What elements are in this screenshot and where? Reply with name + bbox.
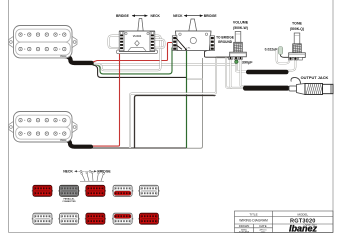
pickup neck poles row1 — [19, 33, 66, 36]
svg-text:(500K-W): (500K-W) — [233, 26, 248, 30]
pickup neck poles row2 — [19, 47, 66, 50]
svg-text:Blaze: Blaze — [60, 139, 67, 142]
cable volume-to-tone — [246, 70, 289, 74]
svg-text:VOLUME: VOLUME — [233, 21, 249, 25]
wire white bridge-to-volume (big loop) — [130, 57, 231, 148]
svg-text:NECK: NECK — [151, 14, 161, 18]
svg-text:FUJIKAWA: FUJIKAWA — [239, 230, 250, 233]
switch1 right lug strip — [150, 32, 155, 51]
legend icon row1 pos1 (red) — [32, 185, 53, 196]
svg-text:CONNECTED: CONNECTED — [62, 201, 76, 203]
wire black neck ground — [93, 65, 187, 77]
legend icon row2 pos1 (white) — [32, 213, 53, 224]
switch1 lever — [138, 19, 143, 32]
wire red switch1-to-bridge — [92, 48, 120, 146]
svg-text:GROUND: GROUND — [218, 40, 233, 44]
wire dark inner of pair — [135, 96, 216, 149]
pickup neck left ear — [9, 36, 15, 48]
legend icon row1 pos5 (white) — [138, 185, 159, 196]
wire white switch2-to-volume — [186, 78, 203, 80]
legend icon row2 pos2 (white) — [58, 213, 79, 224]
volume knurl — [234, 42, 243, 52]
svg-text:MODEL: MODEL — [297, 212, 308, 216]
svg-text:390pF: 390pF — [242, 60, 253, 64]
tone body — [289, 53, 306, 58]
svg-text:NECK: NECK — [63, 170, 73, 174]
wire white jumper right of switch1 — [154, 40, 165, 48]
svg-text:BRIDGE: BRIDGE — [116, 14, 130, 18]
svg-text:TONE: TONE — [292, 22, 303, 26]
switch2 internal diagonals — [176, 38, 186, 49]
svg-text:Blaze: Blaze — [60, 55, 67, 58]
legend icon row1 pos2 (gray) — [58, 185, 79, 203]
capacitor 390pF — [235, 60, 238, 63]
pickup bridge poles row2 — [19, 132, 66, 135]
legend icon row1 pos3 (red) — [85, 185, 106, 196]
pickup neck body — [14, 26, 73, 58]
switch2 right lugs — [210, 36, 215, 51]
svg-text:TO BRIDGE: TO BRIDGE — [216, 36, 234, 40]
wire volume lug verticals — [231, 58, 249, 88]
switch1 left lug strip — [119, 32, 124, 51]
wire ground to jack — [226, 57, 232, 87]
switch1 base plate — [117, 50, 158, 54]
switch2 left lugs — [172, 36, 177, 51]
svg-text:DATE: DATE — [259, 224, 266, 228]
legend 5-way fan — [82, 173, 103, 181]
cable neck pickup — [65, 56, 92, 63]
svg-text:0.022uF: 0.022uF — [265, 47, 278, 51]
pickup bridge left ear — [9, 121, 15, 133]
jack connector — [289, 86, 297, 91]
wire tone lug loops — [277, 48, 296, 71]
wire switch2 right lug to volume — [205, 49, 232, 58]
tone shaft — [294, 33, 300, 44]
svg-text:CRL: CRL — [186, 48, 191, 50]
jack barrel — [305, 84, 323, 95]
svg-text:BRIDGE: BRIDGE — [204, 14, 218, 18]
capacitor 0.022uF — [278, 47, 282, 55]
legend icon row1 pos4 (botred) — [112, 185, 133, 196]
jack tip spring — [291, 77, 301, 83]
pickup bridge right ear — [72, 121, 78, 133]
svg-text:NECK: NECK — [173, 14, 183, 18]
svg-text:OUTPUT JACK: OUTPUT JACK — [301, 75, 329, 80]
cable volume-to-jack — [243, 86, 290, 91]
tone knurl — [293, 44, 302, 53]
wire white loop left of switch1 — [109, 36, 122, 49]
switch2 body — [176, 31, 212, 51]
svg-text:VLX91: VLX91 — [133, 34, 142, 38]
switch1 body — [120, 31, 155, 52]
svg-text:(500K-Q): (500K-Q) — [290, 27, 304, 31]
svg-text:Digital Sign: Digital Sign — [303, 223, 317, 227]
wire white neck-to-volume — [93, 63, 238, 70]
svg-text:WIRING DIAGRAM: WIRING DIAGRAM — [239, 219, 268, 223]
volume body — [230, 52, 247, 57]
switch2 lever — [189, 19, 197, 31]
wire gray bridge junction to black bundle — [186, 58, 203, 148]
volume shaft — [235, 32, 241, 43]
legend icon row2 pos5 (red) — [138, 213, 159, 224]
jack sleeve — [323, 84, 334, 93]
wire white loop right of switch1 — [94, 36, 161, 71]
pickup neck right ear — [72, 36, 78, 48]
title block grid — [235, 211, 334, 233]
cable bridge pickup — [65, 140, 91, 147]
volume lugs — [229, 57, 243, 60]
svg-text:DRAWN: DRAWN — [239, 224, 249, 228]
pickup bridge body — [14, 112, 73, 143]
wire green neck-to-switch2 — [93, 48, 173, 74]
tone lugs — [289, 57, 303, 60]
wire green switch2-to-junction — [186, 50, 188, 149]
wire black bridge ground — [91, 147, 186, 149]
svg-text:TITLE: TITLE — [249, 212, 257, 216]
pickup bridge poles row1 — [19, 119, 66, 122]
wire red neck-to-switch2 — [92, 43, 174, 63]
legend icon row2 pos3 (red) — [85, 213, 106, 224]
legend icon row2 pos4 (topred) — [112, 213, 133, 224]
